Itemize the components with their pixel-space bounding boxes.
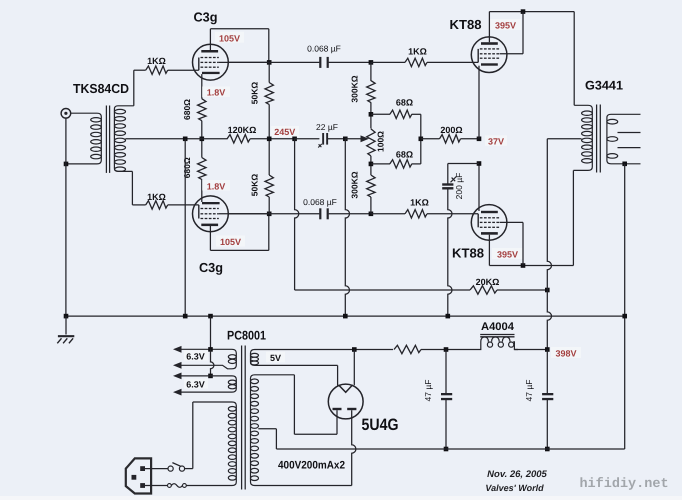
label 50K-ohm R6 <box>250 82 260 105</box>
label 300K-ohm R11 <box>350 171 360 198</box>
svg-text:G3441: G3441 <box>585 79 623 93</box>
label 22uF C1 <box>316 122 338 132</box>
wire center-tap rail <box>125 138 227 140</box>
node pot top junction <box>369 112 374 117</box>
node heater lead junction <box>208 347 213 352</box>
resistor R7 50K plate load V2 <box>265 175 273 197</box>
wire 245V dropping line <box>295 139 299 290</box>
node C5 ground <box>444 447 449 452</box>
wire R12 to joiner <box>412 113 421 115</box>
node speaker ground <box>622 314 627 319</box>
label 50K-ohm R7 <box>250 174 260 197</box>
label 68-ohm R12 <box>396 98 413 108</box>
resistor R13 68 <box>390 160 412 168</box>
wire speaker common to ground <box>624 164 626 449</box>
heater arrow 1 <box>173 346 182 353</box>
svg-text:1.8V: 1.8V <box>207 182 226 192</box>
watermark hifidiy.net <box>579 477 668 492</box>
resistor R15 20K supply dropper <box>470 286 497 294</box>
label 1K-ohm R1 <box>147 56 166 66</box>
ground symbol <box>57 316 74 343</box>
svg-text:20KΩ: 20KΩ <box>476 277 500 287</box>
resistor R1 1K <box>146 66 168 74</box>
resistor R16 filter <box>394 345 421 353</box>
svg-text:A4004: A4004 <box>481 321 515 333</box>
wire secondary bottom to grid resistor <box>132 171 145 205</box>
wire R4 leads <box>201 139 203 180</box>
transformer PC8001 6.3V winding 2 <box>182 376 237 392</box>
wire V1 plate to coupling cap <box>228 61 319 63</box>
svg-text:6.3V: 6.3V <box>186 380 205 390</box>
wire C5 bottom lead <box>445 399 447 449</box>
resistor R11 300K grid leak <box>367 175 375 197</box>
wire C3g V2 screen tap to plate node <box>219 213 269 215</box>
svg-text:680Ω: 680Ω <box>182 157 192 178</box>
node 50K junction at 245V rail <box>267 137 272 142</box>
svg-text:KT88: KT88 <box>450 17 482 32</box>
label 1K-ohm R9 <box>410 198 429 208</box>
transformer PC8001 HV winding <box>251 375 352 486</box>
resistor R2 1K <box>146 201 168 209</box>
svg-text:395V: 395V <box>497 249 518 259</box>
transformer G3441 secondary winding <box>607 114 641 164</box>
wire R14 to cathode line <box>461 138 480 140</box>
label 105V plate voltage V1 <box>215 32 244 44</box>
capacitor C4 200uF cathode bypass <box>442 177 456 190</box>
wire HV center tap <box>258 429 276 449</box>
capacitor C2 0.068uF <box>319 57 329 68</box>
svg-text:398V: 398V <box>555 348 576 358</box>
label 680-ohm R3 <box>182 99 192 120</box>
wire R2 to C3g V2 grid <box>168 204 199 206</box>
wire wiper node to pot <box>345 138 362 140</box>
transformer G3441 primary winding <box>573 105 592 170</box>
pot wiper arrow <box>361 135 370 142</box>
label 0.068uF C2 <box>307 44 341 54</box>
wire joiner to R14 <box>421 138 440 140</box>
transformer TKS84CD core <box>106 106 109 173</box>
svg-text:TKS84CD: TKS84CD <box>73 81 129 96</box>
wire R5 to 245V node <box>250 138 295 140</box>
svg-text:hifidiy.net: hifidiy.net <box>579 477 668 492</box>
wire R16 to first cap node <box>421 349 477 351</box>
node speaker common tap <box>622 162 627 167</box>
potentiometer VR1 100 ohm <box>367 129 375 156</box>
wire C6 top lead <box>546 350 548 395</box>
label 105V plate voltage V2 <box>216 236 245 248</box>
svg-text:Valves' World: Valves' World <box>485 483 544 493</box>
wire HV top lead to anode 1 <box>294 375 337 435</box>
label G3441 <box>585 79 623 93</box>
wire ground drop from wiper node <box>345 139 349 316</box>
wire KT88 V4 plate lead <box>488 235 490 266</box>
wire to 1K grid stopper lower <box>371 213 405 215</box>
wire 300K lower lead <box>370 197 372 214</box>
heater arrow 4 <box>173 389 182 396</box>
svg-text:68Ω: 68Ω <box>396 98 413 108</box>
wire tail to ground bus <box>184 139 186 316</box>
mains plug <box>126 458 151 493</box>
wire 68-ohm bottom bridge <box>371 163 390 165</box>
svg-text:200 µF: 200 µF <box>454 173 464 200</box>
svg-text:100Ω: 100Ω <box>376 131 386 152</box>
wire V4 plate to output transformer <box>572 170 574 265</box>
label 1K-ohm R2 <box>147 192 166 202</box>
switch SW1 <box>168 463 185 472</box>
node pot bottom junction <box>369 162 374 167</box>
wire KT88 V3 plate lead <box>488 12 490 43</box>
svg-text:120KΩ: 120KΩ <box>228 125 257 135</box>
node C3g V1 plate node <box>267 60 272 65</box>
svg-text:400V200mAx2: 400V200mAx2 <box>278 460 345 472</box>
svg-text:C3g: C3g <box>194 10 218 25</box>
node B+ 20K junction <box>545 288 550 293</box>
svg-text:245V: 245V <box>274 127 295 137</box>
wire C5 top lead <box>445 350 447 395</box>
label 1K-ohm R8 <box>408 47 427 57</box>
label PC8001 <box>227 329 266 343</box>
svg-text:680Ω: 680Ω <box>182 99 192 120</box>
resistor R14 200 cathode bias <box>440 135 461 143</box>
wire input ground vertical <box>65 118 67 316</box>
wire C3g V1 screen tap to plate node <box>219 61 269 63</box>
wire KT88 V4 plate rail <box>489 265 573 267</box>
tube KT88 V4 <box>471 205 507 241</box>
transformer G3441 core <box>597 105 601 173</box>
wire bypass cap top lead <box>447 164 449 185</box>
wire C6 bottom lead <box>546 399 548 449</box>
wire 5V top lead B+ takeoff <box>354 349 393 351</box>
svg-text:50KΩ: 50KΩ <box>250 82 260 105</box>
label 1.8V cathode voltage V1 <box>202 87 230 98</box>
resistor R4 680 cathode V2 <box>198 158 206 180</box>
label 6.3V winding 2 <box>184 379 208 390</box>
wire to 1K grid stopper <box>371 61 405 63</box>
wire secondary tap 2 <box>618 132 641 134</box>
wire 5V bottom lead <box>337 365 339 385</box>
svg-text:1.8V: 1.8V <box>207 88 226 98</box>
node joiner at 200-ohm <box>419 137 424 142</box>
tube C3g V1 <box>193 44 229 98</box>
svg-text:0.068 µF: 0.068 µF <box>303 197 337 207</box>
svg-text:300KΩ: 300KΩ <box>350 75 360 102</box>
node wiper ground <box>343 314 348 319</box>
label C3g V1 <box>194 10 218 25</box>
svg-text:C3g: C3g <box>199 260 223 275</box>
label 200-ohm R14 <box>440 125 462 135</box>
label 395V plate voltage V4 <box>492 248 523 259</box>
node cathode junction R3 R4 <box>200 137 205 142</box>
svg-text:395V: 395V <box>495 20 516 30</box>
label 120K-ohm R5 <box>228 125 257 135</box>
svg-text:105V: 105V <box>219 33 240 43</box>
svg-text:0.068 µF: 0.068 µF <box>307 44 341 54</box>
capacitor C6 47uF <box>542 393 553 400</box>
label C3g V2 <box>199 260 223 275</box>
capacitor C1 22uF <box>318 133 328 148</box>
node 37V cathode node <box>477 137 482 142</box>
capacitor C3 0.068uF <box>319 208 329 219</box>
wire V3 screen tap <box>500 12 523 54</box>
fuse F1 <box>168 484 187 488</box>
ground bus wire <box>66 315 625 317</box>
wire B+ center tap line <box>547 139 551 290</box>
label TKS84CD <box>73 81 129 96</box>
node C6 ground <box>545 447 550 452</box>
node V4 screen-plate tie <box>521 263 526 268</box>
transformer PC8001 5V winding <box>251 350 355 366</box>
label 395V plate voltage V3 <box>490 19 521 30</box>
wire pot to 300K lower <box>370 156 372 175</box>
node first filter node <box>444 347 449 352</box>
wire KT88 V4 cathode lead <box>478 164 480 212</box>
label 100-ohm VR1 <box>376 131 386 152</box>
wire to 20K resistor <box>295 289 470 291</box>
wire heater ground drop <box>210 316 212 349</box>
wire plug neutral to fuse <box>145 485 168 487</box>
wire R3 leads <box>201 99 203 139</box>
resistor R9 1K grid stopper <box>405 210 427 218</box>
wire HV bottom lead to anode 2 <box>352 410 356 485</box>
node wiper ground node <box>343 137 348 142</box>
wire bypass cap to ground bus <box>448 188 452 316</box>
wire R15 to B+ line <box>497 289 547 291</box>
node bus left corner <box>64 314 69 319</box>
label 398V supply voltage <box>551 347 581 358</box>
input jack J1 <box>61 109 71 119</box>
node B+ output node <box>545 347 550 352</box>
wire R8 to KT88 V3 grid <box>427 61 478 63</box>
node tail junction <box>183 137 188 142</box>
label 1.8V cathode voltage V2 <box>202 180 230 192</box>
svg-text:37V: 37V <box>488 136 504 146</box>
wire B+ lower line <box>547 290 551 350</box>
wire 245V node to decoupling cap <box>295 138 320 140</box>
label 5V winding <box>266 352 285 363</box>
svg-text:PC8001: PC8001 <box>227 329 266 343</box>
wire V3 plate to output transformer <box>573 12 575 106</box>
node C3g V2 plate node <box>267 212 272 217</box>
wire plug live to switch <box>145 468 168 470</box>
choke A4004 <box>477 335 518 350</box>
svg-text:200Ω: 200Ω <box>440 125 462 135</box>
node heater lead junction 2 <box>208 374 213 379</box>
label KT88 V3 <box>450 17 482 32</box>
svg-text:5V: 5V <box>270 353 281 363</box>
label 245V supply voltage <box>271 126 299 137</box>
resistor R10 300K grid leak <box>367 81 375 103</box>
heater arrow 2 <box>173 362 182 369</box>
transformer PC8001 mains primary winding <box>186 402 236 486</box>
label 6.3V winding 1 <box>184 351 208 362</box>
wire C3g V2 plate loop <box>210 214 268 251</box>
label 47uF C5 <box>423 380 433 402</box>
svg-text:68Ω: 68Ω <box>396 150 413 160</box>
wire cap to grid resistor <box>329 61 371 63</box>
tube KT88 V3 <box>471 37 507 73</box>
wire 50K chain <box>268 62 270 175</box>
caption date <box>487 469 547 480</box>
transformer PC8001 core <box>242 346 246 490</box>
label KT88 V4 <box>452 246 484 261</box>
node bypass ground <box>446 314 451 319</box>
label 20K-ohm R15 <box>476 277 500 287</box>
node tail ground <box>183 314 188 319</box>
label 680-ohm R4 <box>182 157 192 178</box>
node primary-ground junction <box>64 162 69 167</box>
resistor R12 68 <box>390 110 412 118</box>
wire 50K chain lower <box>268 197 270 214</box>
node KT88 grid chain bottom <box>369 212 374 217</box>
wire V4 screen tap <box>500 222 523 265</box>
transformer TKS84CD primary winding <box>66 113 101 164</box>
wire cap to grid resistor lower <box>329 213 371 215</box>
tube 5U4G rectifier <box>328 384 363 419</box>
label 300K-ohm R10 <box>350 75 360 102</box>
label A4004 <box>481 321 515 333</box>
node heater ground <box>208 314 213 319</box>
transformer PC8001 6.3V winding 1 <box>182 349 237 369</box>
svg-text:50KΩ: 50KΩ <box>250 174 260 197</box>
wire 68-ohm top bridge <box>371 113 390 115</box>
caption valves world <box>485 483 544 493</box>
node cathode bypass tap <box>477 161 482 166</box>
label 400V200mAx2 <box>278 460 345 472</box>
svg-text:Nov. 26, 2005: Nov. 26, 2005 <box>487 469 547 480</box>
transformer TKS84CD secondary winding <box>114 106 133 172</box>
wire R9 to KT88 V4 grid <box>427 213 478 215</box>
wire choke to B+ node <box>514 349 547 351</box>
wire R13 to joiner <box>412 163 421 165</box>
capacitor C5 47uF <box>441 393 452 400</box>
svg-text:105V: 105V <box>220 237 241 247</box>
wire cap to wiper node <box>327 138 344 140</box>
wire 300K to pot <box>370 62 372 128</box>
resistor R6 50K plate load V1 <box>265 83 273 105</box>
svg-text:1KΩ: 1KΩ <box>410 198 429 208</box>
node filament B+ tap <box>352 347 357 352</box>
wire R1 to C3g V1 grid <box>168 69 199 71</box>
node 245V node <box>292 137 297 142</box>
svg-text:1KΩ: 1KΩ <box>408 47 427 57</box>
label 37V cathode voltage <box>485 135 507 146</box>
wire C3g V1 plate loop <box>210 29 268 63</box>
wire KT88 V3 plate rail <box>489 11 574 13</box>
resistor R3 680 cathode V1 <box>198 99 206 121</box>
svg-text:5U4G: 5U4G <box>362 416 399 434</box>
svg-text:47 µF: 47 µF <box>524 380 534 402</box>
wire KT88 V3 cathode lead <box>478 66 480 139</box>
resistor R8 1K grid stopper <box>405 58 427 66</box>
svg-text:6.3V: 6.3V <box>186 352 205 362</box>
node V3 screen-plate tie <box>521 9 526 14</box>
label 200uF C4 <box>454 173 464 200</box>
wire G3441 center tap <box>547 138 581 140</box>
wire heater ground link <box>211 349 214 376</box>
wire bypass jog <box>448 163 479 165</box>
wire joiner vertical <box>420 114 422 164</box>
wire V2 plate to coupling cap <box>228 213 319 215</box>
label 5U4G <box>362 416 399 434</box>
label 0.068uF C3 <box>303 197 337 207</box>
svg-text:300KΩ: 300KΩ <box>350 171 360 198</box>
psu return bus wire <box>276 448 624 450</box>
wire secondary top to grid resistor <box>134 70 146 106</box>
svg-text:22 µF: 22 µF <box>316 122 338 132</box>
heater arrow 3 <box>173 373 182 380</box>
wire filament right lead <box>353 350 355 386</box>
label 68-ohm R13 <box>396 150 413 160</box>
resistor R5 120K <box>227 135 250 143</box>
svg-text:KT88: KT88 <box>452 246 484 261</box>
wire secondary tap 3 <box>618 147 641 149</box>
wire switch to primary <box>185 402 193 469</box>
svg-text:47 µF: 47 µF <box>423 380 433 402</box>
node KT88 grid chain top <box>369 60 374 65</box>
label 47uF C6 <box>524 380 534 402</box>
tube C3g V2 <box>193 180 229 232</box>
